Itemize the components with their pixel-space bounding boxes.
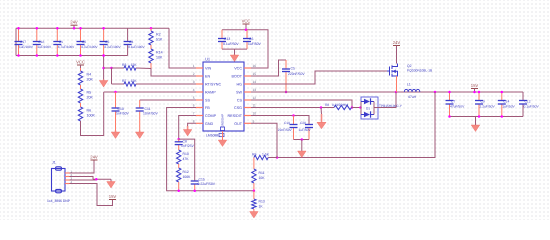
wire J1 pin4 to 15V bbox=[70, 184, 113, 206]
wire R12 to FB rail bbox=[178, 182, 180, 191]
svg-text:5: 5 bbox=[193, 96, 195, 100]
resistor R11 10K bbox=[253, 158, 255, 170]
wire input bank bottom rail bbox=[16, 55, 128, 57]
inductor L1 47uH bbox=[404, 89, 420, 92]
svg-text:47uF/50V: 47uF/50V bbox=[450, 105, 465, 109]
wire anode rail bbox=[360, 102, 362, 115]
capacitor C10 5nF/50V bbox=[112, 92, 120, 131]
svg-text:VIN: VIN bbox=[205, 67, 211, 71]
wire RES net bbox=[251, 116, 309, 125]
ground arrow J1 bbox=[110, 179, 112, 181]
svg-text:C18: C18 bbox=[38, 40, 44, 44]
wire C8 to R10 bbox=[178, 147, 180, 151]
svg-text:R5: R5 bbox=[87, 91, 92, 95]
pin 11 CSG bbox=[244, 107, 251, 109]
svg-text:24V: 24V bbox=[393, 40, 401, 45]
pin 12 CS bbox=[244, 99, 251, 101]
svg-text:0.22uF/50V: 0.22uF/50V bbox=[198, 182, 216, 186]
svg-text:51K: 51K bbox=[156, 38, 163, 42]
node R3 tap on ground vertical bbox=[102, 67, 105, 70]
node C18 top junction bbox=[36, 27, 39, 30]
wire SS net bbox=[140, 99, 196, 101]
svg-text:VCC: VCC bbox=[242, 19, 251, 24]
node C18 bottom junction bbox=[36, 54, 39, 57]
wire R11 to FB rail bbox=[253, 183, 255, 191]
power flag 24V MOSFET drain bbox=[393, 40, 401, 64]
svg-text:COMP: COMP bbox=[205, 114, 217, 118]
pin 5 SS bbox=[196, 99, 203, 101]
ground arrow C10 bbox=[111, 131, 120, 139]
wire R3 node down to R7 bbox=[111, 68, 113, 84]
wire CSG net bbox=[251, 107, 334, 109]
pin 1 VIN bbox=[196, 67, 203, 69]
svg-text:3: 3 bbox=[193, 80, 195, 84]
svg-text:R14: R14 bbox=[156, 51, 163, 55]
node SW MOSFET source junction bbox=[395, 91, 398, 94]
svg-text:R7: R7 bbox=[122, 79, 126, 83]
pin 14 HG bbox=[244, 83, 251, 85]
svg-text:1K: 1K bbox=[259, 204, 264, 208]
node VCC flag junction bbox=[245, 29, 248, 32]
wire VCC pin to cap rail bbox=[222, 30, 268, 68]
wire ground to R3 node bbox=[104, 67, 112, 69]
pin 4 RAMP bbox=[196, 91, 203, 93]
node C2 top junction bbox=[79, 27, 82, 30]
wire RES caps bottom rail bbox=[294, 139, 310, 141]
wire GND pin bbox=[188, 123, 196, 126]
resistor R10 47K bbox=[177, 150, 181, 164]
svg-text:220nF/50V: 220nF/50V bbox=[288, 72, 305, 76]
resistor R14 10K bbox=[149, 49, 153, 63]
svg-text:15V: 15V bbox=[471, 83, 479, 88]
svg-text:C1: C1 bbox=[59, 40, 63, 44]
node output sense tap bbox=[434, 91, 437, 94]
svg-text:1: 1 bbox=[193, 64, 195, 68]
svg-text:J1: J1 bbox=[52, 161, 56, 165]
svg-text:47uH: 47uH bbox=[408, 95, 417, 99]
svg-text:RES/DIT: RES/DIT bbox=[227, 114, 242, 118]
capacitor C14 1uF/50V bbox=[498, 92, 506, 117]
svg-text:D1: D1 bbox=[366, 106, 370, 110]
capacitor C1 4.7uF/100V bbox=[53, 28, 61, 55]
capacitor C7 47uF/50V bbox=[446, 92, 454, 117]
power flag VCC bypass bbox=[242, 19, 251, 30]
capacitor C5 220nF/50V bootstrap bbox=[282, 60, 290, 92]
wire HG gate net bbox=[251, 71, 387, 84]
svg-text:R3: R3 bbox=[122, 63, 126, 67]
svg-text:VCC: VCC bbox=[76, 60, 85, 65]
power flag 15V output bbox=[471, 83, 479, 92]
wire COMP to C15 branch bbox=[179, 139, 195, 181]
svg-text:C12: C12 bbox=[525, 100, 531, 104]
resistor R4 20K bbox=[80, 68, 82, 71]
wire OUT pin net bbox=[251, 123, 277, 157]
svg-text:10K: 10K bbox=[156, 56, 163, 60]
ground arrow U1 GND pin bbox=[183, 126, 192, 136]
wire COMP net bbox=[179, 116, 196, 140]
wire SW net bbox=[251, 91, 450, 93]
connector J1 bbox=[52, 167, 66, 193]
capacitor C3 4.7uF/100V bbox=[100, 28, 108, 55]
svg-text:4.7uF/100V: 4.7uF/100V bbox=[104, 45, 121, 49]
wire J1 gnd run bbox=[93, 178, 111, 180]
ground arrow C11 bbox=[135, 131, 144, 139]
wire output bottom rail bbox=[450, 116, 524, 118]
power flag 24V input rail bbox=[70, 20, 78, 29]
svg-text:GND: GND bbox=[205, 122, 214, 126]
svg-text:RT/SYNC: RT/SYNC bbox=[205, 83, 221, 87]
resistor R13 1K bbox=[253, 191, 255, 199]
node C5 to SW bbox=[285, 91, 288, 94]
capacitor C17 1uF/100V bbox=[15, 28, 23, 55]
svg-text:0.015OHM: 0.015OHM bbox=[332, 103, 348, 107]
node 24V rail stub junction bbox=[73, 27, 76, 30]
resistor R6 100K bbox=[78, 107, 82, 121]
svg-text:100K: 100K bbox=[87, 114, 96, 118]
wire FB net bbox=[167, 108, 254, 191]
svg-text:1uF/50V: 1uF/50V bbox=[299, 128, 312, 132]
svg-text:CSG: CSG bbox=[234, 106, 242, 110]
svg-text:R11: R11 bbox=[259, 171, 265, 175]
node C7 top bbox=[448, 91, 451, 94]
svg-text:20K: 20K bbox=[87, 78, 94, 82]
svg-text:R13: R13 bbox=[259, 200, 265, 204]
svg-text:1nF/25V: 1nF/25V bbox=[181, 144, 195, 148]
svg-text:U1: U1 bbox=[205, 57, 211, 62]
pin 8 GND bbox=[196, 122, 203, 124]
svg-text:2: 2 bbox=[193, 72, 195, 76]
wire RAMP net bbox=[104, 91, 196, 93]
ground arrow U1 exposed pad bbox=[222, 131, 224, 140]
capacitor C19 22nF/50V bbox=[290, 116, 298, 140]
wire R6 bottom to RAMP corner bbox=[81, 92, 104, 136]
node RES cap junction bbox=[292, 114, 295, 117]
node C17 top junction bbox=[17, 27, 20, 30]
node C3 top junction bbox=[102, 27, 105, 30]
node OUT pin junction bbox=[276, 156, 279, 159]
svg-text:10K: 10K bbox=[259, 176, 266, 180]
node R2 top on 24V rail bbox=[150, 27, 153, 30]
svg-text:0.1uF/100V: 0.1uF/100V bbox=[128, 45, 145, 49]
wire cathode to SW bbox=[374, 92, 396, 108]
svg-text:0.1uF/50V: 0.1uF/50V bbox=[524, 105, 540, 109]
ground arrow RES caps bbox=[301, 140, 303, 152]
resistor R2 51K bbox=[150, 28, 152, 31]
wire R7 to RT/SYNC pin bbox=[136, 83, 196, 85]
svg-text:24V: 24V bbox=[90, 155, 98, 160]
power flag 15V J1 bbox=[109, 194, 117, 200]
svg-text:R12: R12 bbox=[183, 170, 189, 174]
wire CS net bbox=[251, 100, 352, 108]
node C1 bottom junction bbox=[56, 54, 59, 57]
svg-text:1uF/50V: 1uF/50V bbox=[502, 105, 515, 109]
node diode anode junction bbox=[359, 106, 362, 109]
node C15 bottom bbox=[193, 189, 196, 192]
svg-text:1uF/100V: 1uF/100V bbox=[37, 45, 52, 49]
svg-text:C6: C6 bbox=[249, 37, 253, 41]
wire 24V rail drop to VIN bbox=[169, 28, 196, 68]
svg-text:C5: C5 bbox=[291, 67, 295, 71]
pin 10 RES/DIT bbox=[244, 115, 251, 117]
wire R2 to R14 bbox=[150, 45, 152, 49]
capacitor C8 1nF/25V bbox=[175, 139, 183, 146]
svg-text:20K: 20K bbox=[87, 96, 94, 100]
svg-text:GND/DAP: GND/DAP bbox=[221, 114, 225, 128]
capacitor C20 1uF/50V bbox=[305, 125, 313, 140]
pin 7 COMP bbox=[196, 115, 203, 117]
node C9 bottom bbox=[478, 115, 481, 118]
wire R5 to R6 bbox=[80, 103, 82, 107]
svg-text:BOOT: BOOT bbox=[232, 75, 243, 79]
svg-text:22nF/50V: 22nF/50V bbox=[278, 128, 293, 132]
pin 2 EN bbox=[196, 75, 203, 77]
svg-text:C9: C9 bbox=[481, 100, 485, 104]
svg-text:1uF/100V: 1uF/100V bbox=[19, 45, 34, 49]
svg-text:1.5K: 1.5K bbox=[262, 152, 270, 156]
svg-text:C19: C19 bbox=[284, 121, 290, 125]
capacitor C6 1uF/50V bbox=[243, 30, 251, 49]
svg-text:R8: R8 bbox=[325, 103, 329, 107]
svg-text:C8: C8 bbox=[183, 140, 187, 144]
svg-text:12K: 12K bbox=[131, 63, 138, 67]
op-amp U1 LM5088 controller body bbox=[203, 62, 244, 131]
pin 15 BOOT bbox=[244, 75, 251, 77]
pin 9 OUT bbox=[244, 122, 251, 124]
node input bank ground bbox=[102, 54, 105, 57]
resistor R8 0.015OHM bbox=[334, 105, 352, 109]
svg-text:R6: R6 bbox=[87, 109, 92, 113]
svg-text:C7: C7 bbox=[451, 100, 455, 104]
ground arrow CSG bbox=[320, 108, 323, 115]
svg-text:47K: 47K bbox=[183, 157, 190, 161]
pin 3 RT/SYNC bbox=[196, 83, 203, 85]
node C7 bottom bbox=[448, 115, 451, 118]
svg-text:SS: SS bbox=[205, 99, 210, 103]
resistor R5 20K bbox=[78, 89, 82, 103]
node COMP branch bbox=[177, 138, 180, 141]
capacitor C13 0.1uF/50V bbox=[218, 30, 226, 49]
resistor R9 1.5K bbox=[268, 157, 277, 159]
wire VCC caps bottom rail bbox=[222, 48, 247, 50]
node 15V flag bbox=[473, 91, 476, 94]
wire output top rail bbox=[450, 91, 524, 93]
svg-text:4.7uF/100V: 4.7uF/100V bbox=[81, 45, 98, 49]
resistor R12 100K bbox=[177, 168, 181, 182]
svg-text:C3: C3 bbox=[105, 40, 109, 44]
capacitor C18 1uF/100V bbox=[33, 28, 41, 55]
svg-text:100K: 100K bbox=[183, 175, 192, 179]
svg-text:HG: HG bbox=[236, 83, 242, 87]
resistor R7 12K bbox=[112, 83, 125, 85]
ground arrow output bank bbox=[475, 117, 477, 126]
node CS join bbox=[351, 106, 354, 109]
svg-text:C11: C11 bbox=[145, 107, 151, 111]
wire R8 to diode anode bbox=[352, 107, 361, 109]
svg-text:C2: C2 bbox=[82, 40, 86, 44]
svg-text:R9: R9 bbox=[252, 152, 256, 156]
svg-text:4: 4 bbox=[193, 88, 195, 92]
power flag VCC divider bbox=[76, 60, 85, 69]
wire BOOT net bbox=[251, 60, 286, 76]
wire J1 pin1 to 24V bbox=[70, 160, 95, 173]
node C14 top bbox=[501, 91, 504, 94]
svg-text:0.1uF/50V: 0.1uF/50V bbox=[223, 42, 239, 46]
svg-text:OUT: OUT bbox=[234, 122, 243, 126]
svg-text:SW: SW bbox=[236, 91, 242, 95]
svg-text:1x4_3896 DNP: 1x4_3896 DNP bbox=[47, 199, 71, 203]
node C3 bottom junction bbox=[102, 54, 105, 57]
svg-text:5nF/50V: 5nF/50V bbox=[116, 112, 130, 116]
node CSG ground tap bbox=[320, 106, 323, 109]
svg-text:RAMP: RAMP bbox=[205, 91, 216, 95]
capacitor C12 0.1uF/50V bbox=[519, 92, 527, 117]
wire cathode rail bbox=[373, 102, 375, 115]
svg-text:R10: R10 bbox=[183, 152, 189, 156]
svg-text:C15: C15 bbox=[199, 178, 205, 182]
wire R14 bottom to EN bbox=[150, 63, 152, 69]
svg-text:10nF/50V: 10nF/50V bbox=[143, 112, 158, 116]
wire J1 pin3 gnd bbox=[70, 178, 97, 181]
node FB divider junction bbox=[253, 189, 256, 192]
diode D1 top element bbox=[361, 101, 364, 103]
svg-text:LM5088: LM5088 bbox=[206, 134, 218, 138]
wire 24V input top rail bbox=[16, 27, 169, 29]
capacitor C9 2.2uF/50V bbox=[475, 92, 483, 117]
svg-text:C4: C4 bbox=[129, 40, 133, 44]
svg-text:12K: 12K bbox=[131, 79, 138, 83]
svg-text:1uF/50V: 1uF/50V bbox=[248, 42, 262, 46]
node C1 top junction bbox=[56, 27, 59, 30]
wire MOSFET source to SW bbox=[396, 76, 398, 92]
node C2 bottom junction bbox=[79, 54, 82, 57]
svg-text:C17: C17 bbox=[20, 40, 26, 44]
pin 1 J1 bbox=[65, 172, 70, 174]
node C14 bottom bbox=[501, 115, 504, 118]
node RES caps ground tap bbox=[301, 138, 304, 141]
svg-text:CS: CS bbox=[237, 99, 243, 103]
ground arrow VCC caps bbox=[234, 49, 236, 54]
svg-text:15V: 15V bbox=[109, 194, 117, 199]
wire R3 to R14 bottom bbox=[136, 67, 151, 70]
ground arrow R13 bbox=[253, 209, 255, 212]
capacitor C11 10nF/50V bbox=[136, 100, 144, 131]
svg-text:R2: R2 bbox=[156, 33, 161, 37]
svg-text:VCC: VCC bbox=[234, 67, 242, 71]
wire J1 pin2 gnd bbox=[70, 177, 94, 180]
power flag 24V J1 bbox=[90, 155, 98, 161]
pin 6 FB bbox=[196, 107, 203, 109]
svg-text:2.2uF/50V: 2.2uF/50V bbox=[480, 105, 496, 109]
node C10 tap on RAMP bbox=[114, 91, 117, 94]
pin 16 VCC bbox=[244, 67, 251, 69]
svg-text:C20: C20 bbox=[300, 121, 306, 125]
wire R4 to R5 bbox=[80, 85, 82, 89]
diode D1 bottom element bbox=[361, 114, 364, 116]
diode D1 body box bbox=[361, 97, 378, 119]
svg-text:R4: R4 bbox=[87, 73, 92, 77]
resistor R3 12K bbox=[112, 67, 125, 69]
ground arrow input bank bbox=[103, 56, 105, 80]
pin 2 J1 bbox=[65, 176, 70, 178]
svg-text:C14: C14 bbox=[503, 100, 509, 104]
svg-text:24V: 24V bbox=[70, 20, 78, 25]
wire input bank left side bbox=[15, 28, 17, 55]
node R3/R7 junction bbox=[110, 67, 113, 70]
svg-text:FB: FB bbox=[205, 106, 210, 110]
node C17 bottom junction bbox=[17, 54, 20, 57]
pin 4 J1 bbox=[65, 183, 70, 185]
transistor Q2 N-MOSFET bbox=[387, 64, 398, 77]
svg-text:PQD30N10BL-1B: PQD30N10BL-1B bbox=[407, 69, 432, 73]
svg-text:C13: C13 bbox=[224, 37, 230, 41]
capacitor C4 0.1uF/100V bbox=[124, 28, 132, 55]
wire R10 to R12 bbox=[178, 164, 180, 168]
node comp chain bottom bbox=[177, 189, 180, 192]
svg-text:EN: EN bbox=[205, 75, 210, 79]
svg-text:C10: C10 bbox=[118, 107, 124, 111]
node C9 top bbox=[478, 91, 481, 94]
pin 13 SW bbox=[244, 91, 251, 93]
pin 3 J1 bbox=[65, 179, 70, 181]
capacitor C15 0.22uF/50V bbox=[191, 181, 199, 191]
capacitor C2 4.7uF/100V bbox=[77, 28, 85, 55]
svg-text:4.7uF/100V: 4.7uF/100V bbox=[58, 45, 75, 49]
node J1 gnd junction bbox=[95, 178, 98, 181]
svg-text:L1: L1 bbox=[407, 83, 411, 87]
svg-text:Q2: Q2 bbox=[407, 64, 412, 68]
wire output sense drop bbox=[277, 92, 435, 158]
